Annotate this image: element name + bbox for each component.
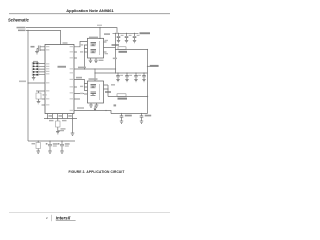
- FET symbols Q1: [91, 43, 97, 47]
- ground under box2: [89, 103, 93, 107]
- FET symbols Q2: [91, 50, 97, 54]
- wire gate riser ch1: [84, 45, 86, 69]
- label smudge above box1 right: [104, 33, 110, 35]
- wire ch2 gates: [74, 80, 85, 91]
- label L2 value: [118, 98, 128, 100]
- FET pair Q1/Q2 box: [88, 38, 104, 58]
- wire 5V rail: [26, 30, 61, 44]
- label smudges under collector wire: [49, 120, 54, 121]
- resistor R ocset: [36, 93, 41, 99]
- box1 internal rail: [99, 41, 101, 55]
- small arrow symbol: [94, 106, 96, 110]
- label smudges mid rail cap bank: [120, 75, 141, 76]
- svg-text:intersil: intersil: [56, 216, 71, 221]
- ground under R: [37, 102, 41, 104]
- pin number smudges right inside: [70, 46, 73, 111]
- inductor L1: [118, 47, 126, 50]
- input label 5VIN: [18, 30, 26, 32]
- ground under Q1/Q2 box: [89, 58, 93, 63]
- IC right extra stubs: [74, 52, 84, 99]
- wire bottom node rail: [111, 113, 148, 115]
- right rail vertical: [147, 50, 149, 114]
- wire phase ch2: [104, 85, 109, 89]
- wire output ch1: [116, 49, 148, 51]
- wire box2 feed: [94, 69, 96, 81]
- bottom collector wire: [44, 118, 77, 120]
- footer divider bar: [50, 215, 53, 221]
- footer rule: [9, 211, 170, 214]
- wire OCSET: [36, 90, 45, 92]
- pin label smudge left: [19, 81, 26, 83]
- cap bank mid rail b: [125, 72, 129, 81]
- node 5V bus tap: [27, 30, 28, 31]
- label smudge on 12V rail: [97, 25, 102, 26]
- cap group bottom b: [140, 113, 144, 124]
- ground right drop: [71, 119, 75, 136]
- IC U1 label: [58, 66, 67, 68]
- wire drop to Q1 drain: [99, 28, 101, 39]
- IC right pin UGATE1 riser: [74, 42, 84, 47]
- box2 left pins: [84, 84, 88, 95]
- label smudges 12V cap bank: [121, 35, 140, 36]
- FET symbols Q3: [91, 85, 97, 89]
- capacitor C1 at VCC: [31, 46, 46, 54]
- svg-text:Application Note AN9861: Application Note AN9861: [66, 8, 114, 13]
- capacitor C bank 12V a: [117, 33, 121, 43]
- cap bank mid rail a: [116, 72, 120, 81]
- resistor under FB pin: [56, 121, 61, 127]
- ground under resistor: [56, 132, 60, 134]
- label smudges bottom caps: [125, 115, 132, 117]
- wire mid rail to right vertical: [95, 72, 148, 74]
- node dot 12V drop: [99, 27, 100, 28]
- wire output ch2: [108, 96, 148, 98]
- FET symbols Q4: [91, 92, 97, 96]
- cap bank mid rail d: [142, 72, 146, 81]
- cap bank mid rail c: [134, 72, 138, 81]
- IC top pin label smudge: [63, 42, 68, 43]
- input label 12VIN: [17, 27, 26, 29]
- wire EN to bus: [28, 82, 45, 84]
- bottom pin labels smudge: [49, 115, 53, 117]
- bootstrap cap ch1: [112, 44, 120, 45]
- wire 12V rail: [26, 28, 117, 34]
- svg-text:2: 2: [46, 216, 48, 220]
- wire left bus: [27, 30, 29, 141]
- wire phase column ch1: [115, 33, 117, 73]
- boot cap ch2: [105, 91, 111, 92]
- svg-text:Schematic: Schematic: [8, 18, 30, 23]
- header rule: [9, 12, 170, 15]
- label L1 value: [119, 51, 128, 53]
- label smudge phase node: [113, 58, 117, 60]
- label smudge above box1: [89, 37, 98, 39]
- IC bottom pins: [48, 114, 73, 119]
- cap on bottom rail b: [58, 140, 70, 153]
- cap on bottom rail a: [46, 140, 58, 153]
- wire 12V cap bank rail: [113, 32, 139, 34]
- resistor on bottom rail: [32, 140, 41, 153]
- box2 internal rail: [99, 84, 101, 100]
- inductor L2: [117, 94, 126, 97]
- label smudge under box1: [99, 60, 104, 61]
- box1 left pins: [84, 42, 88, 53]
- ground under box2 b: [95, 103, 99, 107]
- pin number smudges left inside: [46, 46, 49, 105]
- IC bottom right pin wire: [74, 111, 111, 114]
- label R ocset value: [43, 94, 47, 95]
- label +12V: [140, 32, 151, 34]
- svg-text:FIGURE 2. APPLICATION CIRCUIT: FIGURE 2. APPLICATION CIRCUIT: [68, 170, 124, 174]
- label smudge SS pin: [77, 107, 84, 109]
- capacitor C bank 12V b: [125, 33, 129, 43]
- capacitor C bank 12V c: [133, 33, 137, 43]
- IC U1 body: [45, 45, 74, 114]
- wire phase ch1: [104, 47, 116, 49]
- IC left extra stubs: [42, 99, 46, 105]
- jumper block JP1: [32, 61, 45, 80]
- cap group bottom a: [120, 113, 124, 124]
- FET pair Q3/Q4 box: [88, 81, 104, 103]
- arrow mark node: [114, 104, 117, 106]
- wire PHASE/LGATE row: [74, 68, 116, 70]
- box1 right pin stubs: [104, 42, 107, 52]
- label smudge above box2: [89, 78, 98, 80]
- ground: [35, 48, 39, 54]
- label +3.3V tap: [148, 65, 151, 67]
- bottom-left rail: [28, 140, 75, 142]
